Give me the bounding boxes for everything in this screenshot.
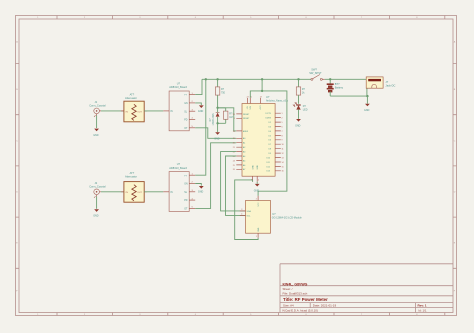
wire supply drop to U2 [195,79,206,175]
border column ticks top [57,16,445,20]
wire split to OLED vcc drop [258,91,287,196]
OLED module U4 [240,196,303,238]
attenuator AT2 [124,171,144,202]
svg-text:24: 24 [233,160,235,162]
svg-text:KW4L, G8VWG: KW4L, G8VWG [283,282,308,286]
U1 pin 1 ++ [189,94,195,96]
svg-text:1: 1 [282,113,283,115]
svg-text:D1/TX: D1/TX [266,113,272,115]
junction ground node [366,95,368,97]
svg-text:11: 11 [282,149,284,151]
U1 pin IN (left) [163,110,169,112]
wire A3 to OLED SDA [221,152,246,211]
svg-text:Attenuator: Attenuator [125,96,137,100]
svg-text:3: 3 [241,209,242,211]
svg-text:4: 4 [258,180,259,182]
svg-text:OUT: OUT [137,112,142,114]
svg-text:GND: GND [198,110,204,113]
junction divider top [216,107,218,109]
svg-text:25: 25 [233,165,235,167]
AT2 pin stubs [121,191,147,193]
svg-text:BT?: BT? [335,82,340,86]
wire AT1 to U1 IN [144,110,163,112]
svg-text:IN: IN [170,111,173,113]
svg-text:12: 12 [282,153,284,155]
svg-text:D9: D9 [269,153,271,155]
svg-text:D10: D10 [267,157,270,159]
svg-text:GND: GND [93,215,99,218]
svg-text:14: 14 [282,162,284,164]
svg-text:D2: D2 [269,122,271,124]
U2 pin 5 OT [189,207,195,209]
U2 pin 3 SL [189,191,195,193]
svg-text:A0: A0 [243,137,245,140]
wire R1 to divider node [217,95,219,108]
svg-text:Id: 1/1: Id: 1/1 [419,309,427,313]
svg-text:17: 17 [260,96,262,98]
svg-text:RESET: RESET [243,118,250,120]
wire battery minus to jack sleeve and ground [330,86,367,96]
wire divider to ground [217,123,219,132]
svg-text:Rev: 1: Rev: 1 [418,304,427,308]
zener diode D1 [209,108,220,126]
connector J2 Conn_Coaxial [89,181,106,198]
svg-text:GG-12864-I2C-LCD-Module: GG-12864-I2C-LCD-Module [272,217,303,220]
arduino left pins [233,114,250,171]
svg-text:26: 26 [233,169,235,171]
svg-text:10: 10 [282,144,284,146]
wire split to arduino VIN [250,91,262,98]
svg-text:Battery: Battery [335,86,344,90]
ground at U2 pin 2 [198,186,204,194]
ground at U1 pin 2 [198,105,204,113]
wire J2 to GND [96,196,98,208]
svg-text:Size: A4: Size: A4 [283,304,294,308]
svg-text:RESET: RESET [243,114,250,116]
svg-text:A4: A4 [243,155,245,158]
LED D2 [293,102,307,111]
junction rail to R1 [216,78,218,80]
AD8313 board U1 [163,82,195,131]
wire A4 to OLED SCL [226,156,246,215]
title block outline [280,264,453,313]
wire ground node down [366,96,368,104]
svg-text:Conn_Coaxial: Conn_Coaxial [89,103,106,107]
svg-text:U?: U? [177,162,181,166]
svg-text:D6: D6 [269,140,271,142]
wire arduino GND to OLED GND [235,180,258,240]
svg-text:VCC: VCC [258,202,260,207]
resistor R2 1M [218,108,233,124]
svg-text:19: 19 [233,138,235,140]
svg-text:D0/RX: D0/RX [266,118,272,120]
svg-text:PD: PD [184,200,188,202]
wire U2 OT to A1 [195,143,236,209]
svg-text:GND: GND [214,137,220,140]
wire switch to battery rail [325,78,367,80]
wire R3 to LED [298,95,300,104]
svg-text:Jack-DC: Jack-DC [385,84,395,88]
svg-text:Attenuator: Attenuator [125,174,137,178]
U2 pin IN (left) [163,191,169,193]
wire U1 OT to A0 [195,128,236,139]
resistor R1 750 [215,87,225,95]
svg-text:3: 3 [234,118,235,120]
junction rail to VIN [261,78,263,80]
ground under J1 [93,129,99,137]
svg-text:+3V3: +3V3 [260,106,262,110]
resistor R3 1k [296,87,305,95]
svg-text:Conn_Coaxial: Conn_Coaxial [89,184,106,188]
svg-text:U?: U? [177,82,181,86]
arduino right pins [266,113,284,173]
svg-text:16: 16 [282,171,284,173]
arduino top pins [247,96,263,110]
svg-text:2: 2 [256,199,257,201]
ground under arduino [254,184,260,192]
svg-text:A7: A7 [243,168,245,171]
svg-text:SW?: SW? [311,68,317,72]
svg-text:8: 8 [282,135,283,137]
svg-text:LED: LED [303,108,308,111]
svg-text:IN: IN [170,192,173,194]
svg-text:7: 7 [282,131,283,133]
border row ticks right [453,64,457,269]
svg-text:A3: A3 [243,151,245,154]
svg-text:D3: D3 [269,126,271,128]
svg-text:AREF: AREF [243,130,249,133]
svg-text:SDA: SDA [247,210,252,213]
U1 pin 2 GN [189,102,195,104]
junction battery top [329,78,331,80]
svg-text:GND: GND [93,134,99,137]
wire rail to R1 [217,79,219,87]
switch SW1 SW_SPST [309,68,324,81]
wire rail to R3 [298,79,300,87]
wire AT2 to U2 IN [144,191,163,193]
svg-text:2: 2 [282,118,283,120]
svg-text:Arduino_Nano_v3.x: Arduino_Nano_v3.x [266,100,289,103]
svg-text:1: 1 [256,236,257,238]
wire J1 to GND [96,116,98,129]
junction rail to boards supply [205,78,207,80]
junction rail to LED resistor [297,78,299,80]
junction divider bottom [216,122,218,124]
ground under J2 [93,209,99,217]
wire J1 to AT1 [101,110,124,112]
svg-text:D4: D4 [269,131,271,133]
OLED pin SDA [240,210,246,212]
DC jack J3 [366,77,395,88]
wire J2 to AT2 [101,191,124,193]
svg-text:GN: GN [184,184,188,186]
svg-text:GN: GN [184,103,188,105]
svg-text:9: 9 [282,140,283,142]
svg-text:AD8313_Board: AD8313_Board [169,85,187,89]
battery BT1 [327,79,344,96]
svg-text:GND: GND [364,109,370,112]
svg-text:15: 15 [282,166,284,168]
svg-text:File: Dual8313.sch: File: Dual8313.sch [283,291,308,295]
wire divider node to AREF pin [218,108,237,131]
OLED pin GND bottom [257,233,259,238]
svg-text:AD8313_Board: AD8313_Board [169,166,187,170]
OLED pin SCL [240,214,246,216]
svg-text:D12: D12 [267,166,270,168]
svg-text:GND: GND [252,165,254,170]
attenuator AT1 [124,93,144,122]
svg-text:A1: A1 [243,142,245,145]
svg-text:28: 28 [233,114,235,116]
svg-text:D13: D13 [267,171,270,173]
svg-text:27: 27 [247,96,249,98]
wire U1 vcc to rail [195,79,202,94]
U2 pin 1 ++ [189,174,195,176]
connector J1 Conn_Coaxial [89,100,106,117]
svg-text:GND: GND [198,191,204,194]
arduino nano U3 [242,95,289,176]
svg-text:13: 13 [282,157,284,159]
svg-text:21: 21 [233,147,235,149]
svg-text:750: 750 [221,91,226,94]
svg-text:U?: U? [272,212,276,216]
svg-text:D11: D11 [267,162,270,164]
U1 pin 3 SL [189,110,195,112]
wire U1 GN to ground [195,103,201,105]
AD8313 board U2 [163,162,195,211]
ground under LED [295,119,301,127]
U2 pin 2 GN [189,183,195,185]
wire arduino GND pin to ground [256,182,258,184]
U1 pin 4 PD [189,119,195,121]
svg-text:GND: GND [254,189,260,192]
svg-text:Title: RF Power Meter: Title: RF Power Meter [283,297,328,302]
svg-text:4: 4 [241,214,242,216]
+BATT rail wire [202,78,311,80]
svg-text:D5: D5 [269,135,271,137]
svg-text:A5: A5 [243,159,245,162]
ground at battery [364,104,370,112]
svg-text:KiCad E.D.A. kicad (5.0.10): KiCad E.D.A. kicad (5.0.10) [283,309,318,313]
U2 pin 4 PD [189,199,195,201]
svg-text:U?: U? [266,95,270,99]
svg-text:18: 18 [233,131,235,133]
border column ticks bottom [57,313,445,316]
svg-text:20: 20 [233,143,235,145]
svg-text:D8: D8 [269,149,271,151]
U1 pin 5 OT [189,127,195,129]
svg-text:1M: 1M [229,116,232,119]
svg-text:OUT: OUT [137,192,142,194]
AT1 pin stubs [121,110,147,112]
wire U2 GN to ground [195,184,201,186]
svg-text:1N5711WS: 1N5711WS [212,113,215,125]
svg-text:GND: GND [295,124,301,127]
svg-text:A6: A6 [243,164,245,167]
svg-text:A2: A2 [243,146,245,149]
svg-text:PD: PD [184,120,188,122]
svg-text:Date: 2021-01-19: Date: 2021-01-19 [313,304,337,308]
svg-text:GND: GND [257,165,259,170]
ground under divider [214,132,220,140]
svg-text:D7: D7 [269,144,271,146]
wire rail down to VIN split [261,79,263,91]
border row ticks left [16,64,20,269]
OLED pin VCC top [257,196,259,201]
svg-text:Sheet: /: Sheet: / [283,287,293,291]
wire LED to ground [298,109,300,119]
svg-text:SW_SPST: SW_SPST [309,71,322,75]
junction VIN split [261,90,263,92]
svg-text:5: 5 [282,122,283,124]
svg-text:GND: GND [258,227,260,232]
arduino bottom pins [251,165,259,182]
svg-text:6: 6 [282,126,283,128]
